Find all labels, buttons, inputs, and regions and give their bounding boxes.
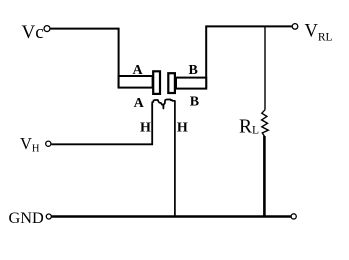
svg-text:GND: GND	[9, 208, 45, 227]
svg-text:B: B	[190, 95, 199, 110]
svg-text:H: H	[140, 121, 151, 136]
svg-text:A: A	[134, 96, 145, 111]
svg-text:B: B	[189, 63, 198, 78]
svg-text:H: H	[177, 121, 188, 136]
svg-text:A: A	[132, 63, 143, 78]
svg-text:Vc: Vc	[22, 22, 44, 43]
